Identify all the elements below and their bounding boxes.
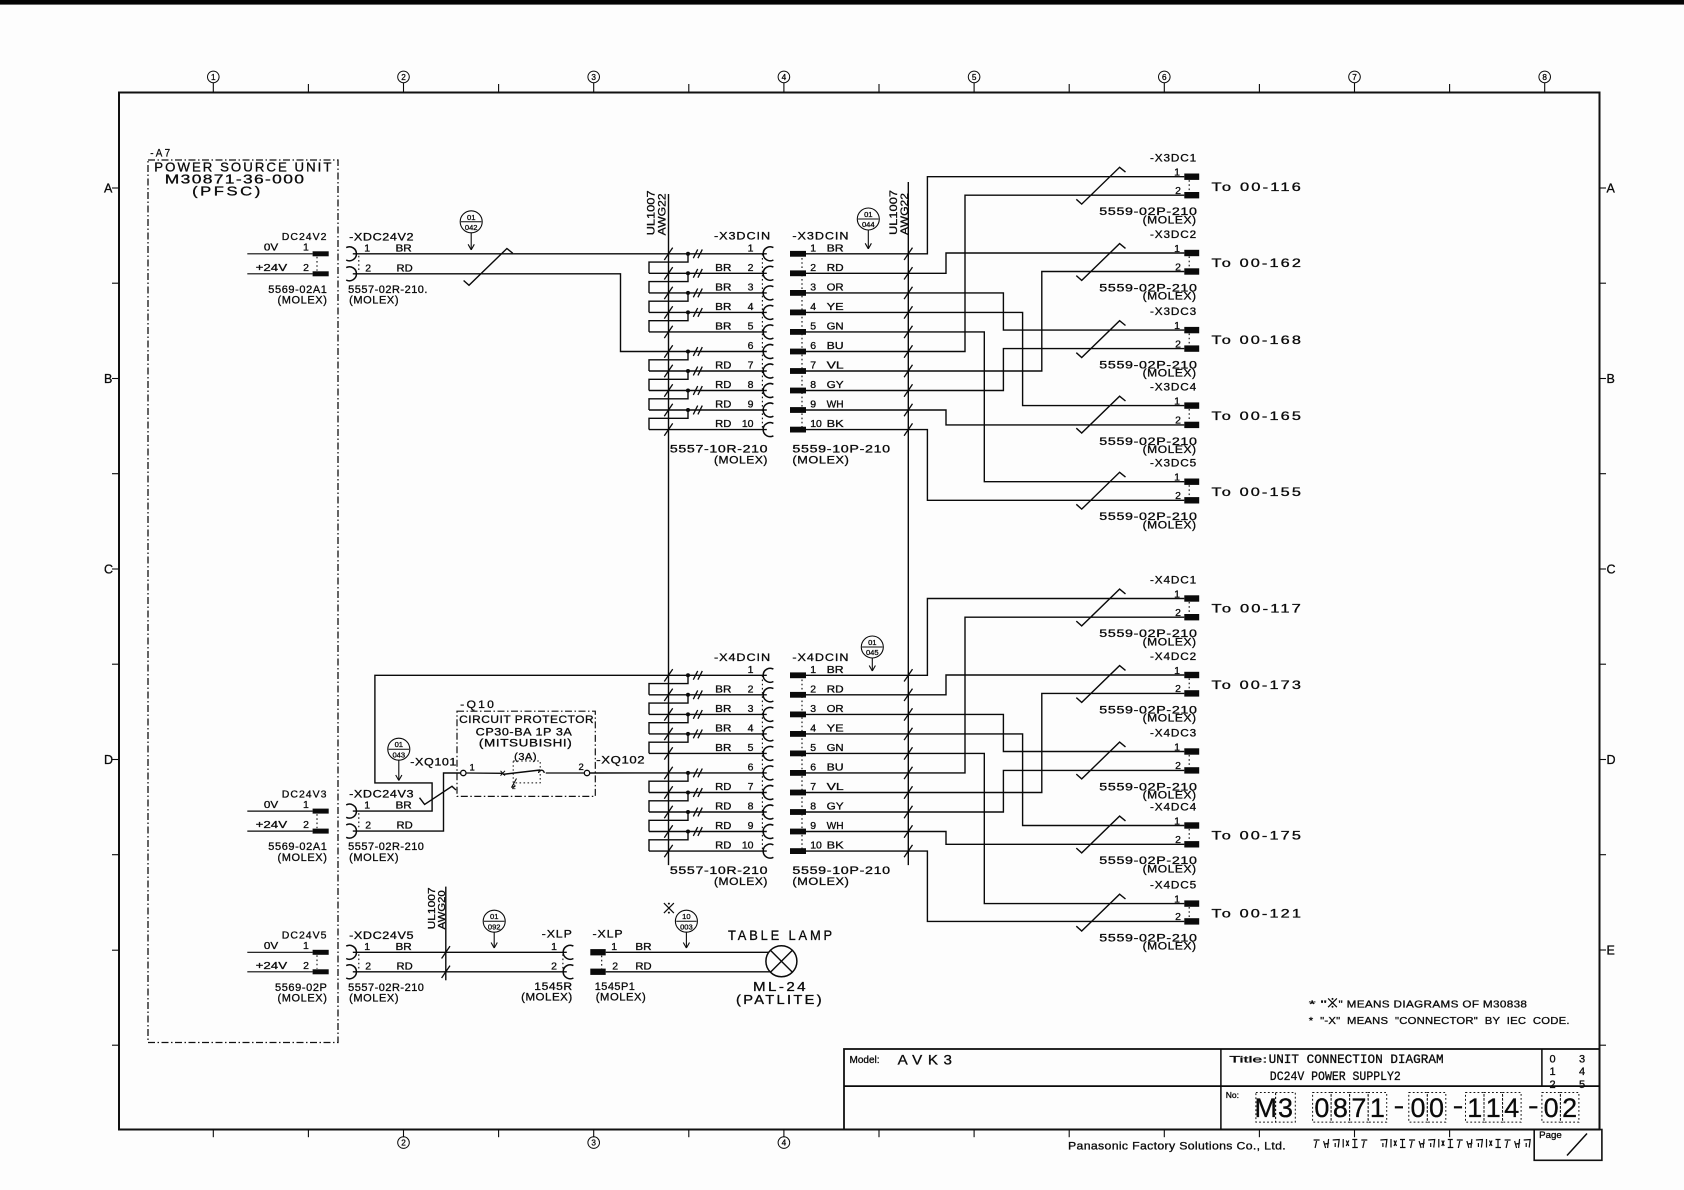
-X4DCIN plug pin 8 GY: [790, 801, 844, 815]
svg-text:0: 0: [1314, 1093, 1329, 1123]
svg-text:CIRCUIT PROTECTOR: CIRCUIT PROTECTOR: [459, 714, 594, 726]
svg-text:(MOLEX): (MOLEX): [1143, 368, 1197, 380]
svg-text:1: 1: [810, 664, 816, 676]
connector -XDC24V3 pin 2 hook: [346, 824, 356, 838]
connector -XDC24V3 pin link: [358, 813, 360, 829]
connector -X4DC3 5559-02P-210: [1099, 728, 1199, 802]
-X3DCIN plug pin 10 BK: [790, 418, 844, 432]
-X4DCIN plug wire 9 to bundle: [806, 825, 913, 837]
svg-text:2: 2: [1175, 338, 1181, 350]
svg-text:(MOLEX): (MOLEX): [277, 295, 327, 307]
svg-text:(PATLITE): (PATLITE): [736, 993, 824, 1007]
connector -X4DC5 5559-02P-210: [1099, 880, 1199, 953]
svg-text:4: 4: [748, 723, 754, 735]
-X4DCIN row 6 stub wire: [664, 767, 702, 779]
-X3DCIN receptacle pin 9: [715, 399, 773, 417]
revision number grid: [1549, 1054, 1585, 1091]
svg-text:2: 2: [365, 960, 371, 972]
svg-text:+24V: +24V: [256, 960, 288, 972]
svg-text:BR: BR: [396, 242, 413, 254]
svg-text:(MOLEX): (MOLEX): [349, 852, 399, 864]
svg-text:A: A: [1607, 182, 1616, 196]
svg-text:5: 5: [748, 742, 754, 754]
svg-text:OR: OR: [827, 282, 844, 294]
cable mark on -X4DC3 pair: [1076, 742, 1125, 779]
-X3DCIN receptacle pin 7: [715, 360, 773, 378]
svg-text:-X4DC2: -X4DC2: [1150, 651, 1197, 663]
svg-text:1: 1: [1549, 1066, 1555, 1078]
svg-text:GY: GY: [827, 379, 844, 391]
-X4DCIN receptacle pin 3: [715, 703, 773, 721]
svg-text:8: 8: [810, 801, 816, 813]
svg-text:+24V: +24V: [256, 819, 288, 831]
svg-text:2: 2: [1175, 185, 1181, 197]
-X4DCIN chain link 9-10: [649, 832, 688, 852]
svg-text:(PFSC): (PFSC): [192, 184, 263, 199]
wire X4DCIN row2 to X4DC2 pin1: [908, 675, 1184, 695]
wire XDC24V2-2 RD to X3DCIN row6: [353, 274, 767, 352]
title block frame: [844, 1049, 1600, 1130]
svg-text:M: M: [1255, 1093, 1278, 1123]
svg-text:003: 003: [680, 922, 693, 931]
wire X3DCIN row8 to X3DC3 pin2: [908, 349, 1184, 391]
net label To 00-155: [1212, 487, 1304, 499]
svg-text:3: 3: [1278, 1093, 1293, 1123]
-X3DCIN receptacle pin 6: [748, 340, 774, 358]
reference mark for lamp circuit: [664, 903, 674, 914]
svg-text:-X3DC1: -X3DC1: [1150, 153, 1197, 165]
svg-text:B: B: [104, 372, 112, 386]
-X3DCIN plug wire 10 to bundle: [806, 423, 913, 435]
-X4DCIN plug wire 7 to bundle: [806, 786, 913, 798]
svg-text:BR: BR: [715, 723, 732, 735]
company name: [1068, 1140, 1286, 1152]
-X4DCIN plug pin 9 WH: [790, 820, 844, 834]
svg-text:6: 6: [810, 340, 816, 352]
wire XDC24V5-2 RD to XLP 2: [353, 966, 567, 978]
svg-text:" MEANS DIAGRAMS OF M30838: " MEANS DIAGRAMS OF M30838: [1339, 998, 1528, 1010]
-X3DCIN receptacle pin 4: [715, 301, 773, 319]
wire X4DCIN row1 to X4DC1 pin1: [908, 599, 1184, 676]
svg-text:1: 1: [748, 242, 754, 254]
svg-text:1: 1: [1370, 1093, 1385, 1123]
-X4DCIN row 8 stub wire: [649, 806, 767, 818]
svg-text:1: 1: [364, 242, 370, 254]
svg-text:1: 1: [1174, 243, 1180, 255]
svg-text:6: 6: [748, 340, 754, 352]
wire X4DCIN row9 to X4DC4 pin2: [908, 832, 1184, 845]
-X3DCIN chain link 2-3: [649, 273, 688, 293]
svg-text:01: 01: [864, 210, 872, 219]
svg-text:2: 2: [810, 683, 816, 695]
connector -X3DCIN receptacle pin link: [761, 254, 763, 430]
cable line UL1007 AWG20: [426, 887, 448, 981]
svg-text:045: 045: [866, 648, 879, 657]
svg-text:-X3DC3: -X3DC3: [1150, 306, 1197, 318]
svg-text:BR: BR: [715, 282, 732, 294]
cable mark on -X3DC1 pair: [1076, 167, 1125, 204]
svg-text:7: 7: [1351, 1093, 1366, 1123]
-X3DCIN receptacle pin 1: [748, 242, 774, 260]
-X3DCIN chain link 6-7: [649, 352, 688, 372]
svg-text:(MOLEX): (MOLEX): [277, 852, 327, 864]
svg-text:2: 2: [1175, 607, 1181, 619]
svg-text:-X3DCIN: -X3DCIN: [714, 231, 771, 243]
svg-text:2: 2: [579, 762, 584, 773]
sheet reference 10/003: [675, 910, 697, 948]
svg-text:5: 5: [748, 321, 754, 333]
svg-text:To 00-173: To 00-173: [1212, 680, 1304, 692]
svg-text:1: 1: [1174, 741, 1180, 753]
svg-text:10: 10: [742, 418, 754, 430]
svg-text:(MOLEX): (MOLEX): [596, 992, 647, 1004]
svg-text:2: 2: [401, 1139, 406, 1148]
svg-text:01: 01: [467, 213, 475, 222]
-X4DCIN receptacle pin 8: [715, 801, 773, 819]
svg-text:10: 10: [682, 912, 690, 921]
connector XLP plug 1545P1: [590, 928, 652, 1003]
svg-text:2: 2: [1175, 490, 1181, 502]
svg-text:2: 2: [365, 262, 371, 274]
svg-text:To 00-175: To 00-175: [1212, 831, 1304, 843]
svg-text:5: 5: [1579, 1079, 1585, 1091]
svg-text:10: 10: [810, 840, 822, 852]
svg-text:8: 8: [748, 379, 754, 391]
svg-text:7: 7: [810, 781, 816, 793]
svg-text:2: 2: [551, 960, 557, 972]
svg-text:8: 8: [810, 379, 816, 391]
svg-text:VL: VL: [827, 360, 844, 372]
-X4DCIN row 5 stub wire: [649, 747, 767, 759]
svg-text:GY: GY: [827, 801, 844, 813]
svg-text:BR: BR: [715, 703, 732, 715]
connector -X4DCIN plug 5559-10P-210 labels: [792, 652, 890, 888]
power source unit A7 enclosure box: [148, 148, 338, 1043]
sheet reference 01/043: [388, 738, 410, 780]
svg-text:C: C: [104, 563, 113, 577]
-X3DCIN plug wire 7 to bundle: [806, 365, 913, 377]
svg-text:ML-24: ML-24: [753, 980, 808, 994]
svg-text:To 00-162: To 00-162: [1212, 258, 1304, 270]
-X4DCIN plug wire 2 to bundle: [806, 689, 913, 701]
connector -XDC24V2 labels: [348, 231, 428, 306]
svg-text:-X4DCIN: -X4DCIN: [714, 652, 771, 664]
connector DC24V2 pin 2 lead and crimp: [247, 271, 328, 276]
-X3DCIN plug pin 2 RD: [790, 262, 844, 276]
svg-text:3: 3: [591, 1139, 596, 1148]
svg-text:To 00-117: To 00-117: [1212, 604, 1304, 616]
wire XLP-1 BR to table lamp: [606, 951, 769, 953]
svg-text:BR: BR: [827, 664, 844, 676]
svg-text:2: 2: [1175, 261, 1181, 273]
svg-text:BR: BR: [715, 321, 732, 333]
-X4DCIN chain link 3-4: [649, 714, 688, 734]
connector -X4DCIN plug pin link: [801, 675, 803, 851]
cable mark on XDC24V3 RD wire: [420, 786, 457, 804]
wire XDC24V5-1 BR to XLP 1: [353, 946, 567, 958]
svg-text:2: 2: [303, 819, 309, 831]
connector -X3DCIN plug pin link: [801, 254, 803, 430]
-X3DCIN row 6 stub wire: [664, 345, 702, 357]
svg-text:(MOLEX): (MOLEX): [1143, 713, 1197, 725]
-X3DCIN plug wire 8 to bundle: [806, 384, 913, 396]
note reference marks meaning: [1309, 998, 1570, 1027]
-X4DCIN row 1 stub wire: [664, 669, 702, 681]
-X4DCIN plug pin 10 BK: [790, 840, 844, 854]
wire X3DCIN row7 to X3DC2 pin2: [908, 272, 1184, 372]
svg-text:043: 043: [392, 750, 405, 759]
svg-text:7: 7: [748, 360, 754, 372]
svg-text:2: 2: [612, 960, 618, 972]
svg-text:3: 3: [1579, 1054, 1585, 1066]
svg-text:2: 2: [748, 262, 754, 274]
wire X3DCIN row2 to X3DC2 pin1: [908, 253, 1184, 273]
svg-text:(MOLEX): (MOLEX): [277, 993, 327, 1005]
svg-text:No:: No:: [1226, 1090, 1239, 1100]
connector -XDC24V5 pin 2 hook: [346, 965, 356, 979]
svg-text:6: 6: [810, 762, 816, 774]
cable mark on -X4DC1 pair: [1076, 589, 1125, 626]
-X3DCIN row 3 stub wire: [649, 287, 767, 299]
wire X3DCIN row1 to X3DC1 pin1: [908, 177, 1184, 254]
-X3DCIN plug pin 7 VL: [790, 360, 844, 374]
svg-text:(MOLEX): (MOLEX): [1143, 790, 1197, 802]
-X4DCIN plug wire 4 to bundle: [806, 728, 913, 740]
svg-text:4: 4: [748, 301, 754, 313]
svg-text:-A7: -A7: [150, 148, 172, 160]
svg-text:VL: VL: [827, 781, 844, 793]
svg-text:Model:: Model:: [850, 1055, 880, 1066]
svg-text:3: 3: [748, 282, 754, 294]
svg-text:(MOLEX): (MOLEX): [521, 992, 573, 1004]
connector -X3DC3 5559-02P-210: [1099, 306, 1199, 380]
net label To 00-168: [1212, 335, 1304, 347]
svg-text:-X4DC3: -X4DC3: [1150, 728, 1197, 740]
cable mark on -X3DC5 pair: [1076, 472, 1125, 509]
drawing frame border: [119, 93, 1600, 1130]
-X3DCIN plug pin 3 OR: [790, 282, 844, 296]
-X4DCIN plug pin 3 OR: [790, 703, 844, 717]
-X3DCIN row 7 stub wire: [649, 365, 767, 377]
svg-text:3: 3: [748, 703, 754, 715]
-X3DCIN plug pin 1 BR: [790, 242, 844, 256]
svg-text:2: 2: [303, 960, 309, 972]
svg-text:2: 2: [748, 683, 754, 695]
svg-text:0V: 0V: [264, 940, 278, 952]
svg-text:BR: BR: [715, 262, 732, 274]
wire X3DCIN row10 to X3DC5 pin2: [908, 430, 1184, 501]
svg-text:RD: RD: [715, 840, 732, 852]
-X4DCIN chain link 2-3: [649, 695, 688, 715]
svg-text:1: 1: [364, 800, 370, 812]
svg-text:1: 1: [1486, 1093, 1501, 1123]
-X3DCIN chain link 3-4: [649, 293, 688, 313]
svg-text:BR: BR: [715, 742, 732, 754]
svg-text:BR: BR: [827, 242, 844, 254]
svg-text:9: 9: [810, 399, 816, 411]
-X3DCIN row 8 stub wire: [649, 384, 767, 396]
svg-text:1: 1: [810, 242, 816, 254]
svg-text:-XLP: -XLP: [593, 928, 624, 940]
wire XDC24V3-2 RD to circuit protector XQ101: [353, 773, 461, 831]
svg-text:0: 0: [1429, 1093, 1444, 1123]
svg-text:D: D: [1607, 753, 1616, 767]
svg-text:RD: RD: [715, 801, 732, 813]
wire X4DCIN row6 to X4DC1 pin2: [908, 617, 1184, 773]
-X4DCIN chain link 4-5: [649, 734, 688, 754]
connector -X4DCIN receptacle pin link: [761, 675, 763, 851]
svg-text:-XLP: -XLP: [542, 928, 573, 940]
svg-text:RD: RD: [715, 379, 732, 391]
-X3DCIN plug pin 4 YE: [790, 301, 844, 315]
svg-text:(MOLEX): (MOLEX): [1143, 291, 1197, 303]
-X4DCIN row 4 stub wire: [649, 728, 767, 740]
svg-text:RD: RD: [827, 262, 844, 274]
-X3DCIN plug pin 5 GN: [790, 321, 844, 335]
row reference letters right: [1600, 182, 1616, 1046]
svg-text:2: 2: [512, 784, 516, 791]
net label To 00-116: [1212, 182, 1304, 194]
svg-text:10: 10: [742, 840, 754, 852]
svg-text:7: 7: [810, 360, 816, 372]
svg-text:WH: WH: [827, 399, 844, 411]
-X3DCIN row 5 stub wire: [649, 326, 767, 338]
svg-text:To 00-168: To 00-168: [1212, 335, 1304, 347]
-X4DCIN chain link 6-7: [649, 773, 688, 793]
-X3DCIN plug pin 9 WH: [790, 399, 844, 413]
svg-text:BK: BK: [827, 840, 844, 852]
cable bundle line right UL1007 AWG22: [888, 182, 911, 865]
svg-text:1: 1: [748, 664, 754, 676]
svg-text:C: C: [1607, 563, 1616, 577]
-X3DCIN row 2 stub wire: [649, 267, 767, 279]
svg-text:B: B: [1607, 372, 1615, 386]
wire XLP-2 RD to table lamp: [606, 971, 770, 973]
svg-text:4: 4: [1504, 1093, 1519, 1123]
svg-text:AWG20: AWG20: [436, 890, 448, 929]
wire XDC24V3-1 BR to X4DCIN row1: [353, 675, 767, 811]
-X4DCIN chain link 7-8: [649, 793, 688, 813]
connector -XDC24V2 pin 2 hook: [346, 267, 356, 281]
connector -X3DCIN receptacle 5557-10R-210 labels: [670, 231, 771, 467]
-X3DCIN row 1 stub wire: [664, 248, 702, 260]
svg-text:(MOLEX): (MOLEX): [1143, 444, 1197, 456]
svg-text:BR: BR: [396, 941, 413, 953]
wire X3DCIN row9 to X3DC4 pin2: [908, 410, 1184, 425]
svg-text:-XQ101: -XQ101: [410, 756, 457, 768]
svg-text:01: 01: [395, 740, 403, 749]
connector DC24V3 pin link: [316, 814, 318, 828]
cable mark on -X4DC2 pair: [1076, 666, 1125, 703]
svg-text:(MOLEX): (MOLEX): [1143, 941, 1197, 953]
svg-text:1: 1: [1174, 320, 1180, 332]
connector DC24V2 pin labels: [256, 231, 328, 307]
svg-text:8: 8: [748, 801, 754, 813]
connector DC24V5 pin 2 lead and crimp: [247, 969, 328, 974]
-X4DCIN plug pin 6 BU: [790, 762, 844, 776]
svg-text:AWG22: AWG22: [657, 193, 669, 235]
svg-text:7: 7: [1352, 73, 1357, 82]
svg-text:TABLE LAMP: TABLE LAMP: [728, 928, 835, 943]
svg-text:DC24V POWER SUPPLY2: DC24V POWER SUPPLY2: [1270, 1069, 1401, 1084]
connector -X4DC2 5559-02P-210: [1099, 651, 1199, 725]
svg-text:(MOLEX): (MOLEX): [714, 876, 768, 888]
-X3DCIN plug wire 1 to bundle: [806, 248, 913, 260]
-X3DCIN plug wire 2 to bundle: [806, 267, 913, 279]
svg-text:Panasonic Factory Solutions Co: Panasonic Factory Solutions Co., Ltd.: [1068, 1140, 1286, 1152]
-X4DCIN row 7 stub wire: [649, 786, 767, 798]
net label To 00-162: [1212, 258, 1304, 270]
svg-text:(MOLEX): (MOLEX): [1143, 214, 1197, 226]
svg-text:(MOLEX): (MOLEX): [1143, 863, 1197, 875]
svg-text:To 00-165: To 00-165: [1212, 411, 1304, 423]
svg-text:GN: GN: [827, 742, 844, 754]
-X4DCIN chain link 8-9: [649, 812, 688, 832]
svg-text:E: E: [1607, 944, 1615, 958]
connector DC24V3 pin labels: [256, 788, 328, 864]
svg-text:YE: YE: [827, 723, 844, 735]
-X4DCIN plug pin 1 BR: [790, 664, 844, 678]
connector -XDC24V2 pin link: [358, 256, 360, 272]
-X3DCIN plug pin 8 GY: [790, 379, 844, 393]
svg-text:0: 0: [1410, 1093, 1425, 1123]
svg-text:1: 1: [1174, 395, 1180, 407]
svg-text:AWG22: AWG22: [899, 193, 911, 235]
svg-text:2: 2: [1549, 1079, 1555, 1091]
svg-text:3: 3: [810, 703, 816, 715]
svg-text:RD: RD: [635, 960, 652, 972]
svg-text:8: 8: [1542, 73, 1547, 82]
connector DC24V3 pin 2 lead and crimp: [247, 829, 328, 834]
-X3DCIN chain link 8-9: [649, 391, 688, 411]
net label To 00-175: [1212, 831, 1304, 843]
net label To 00-121: [1212, 908, 1304, 920]
svg-text:1: 1: [1174, 815, 1180, 827]
-X3DCIN plug wire 9 to bundle: [806, 404, 913, 416]
svg-text:(3A): (3A): [514, 752, 537, 763]
svg-text:(MITSUBISHI): (MITSUBISHI): [479, 738, 573, 750]
svg-text:1: 1: [1467, 1093, 1482, 1123]
svg-text:(MOLEX): (MOLEX): [1143, 519, 1197, 531]
svg-text:1: 1: [1174, 665, 1180, 677]
cable mark on XDC24V2 pair: [464, 249, 513, 286]
-X4DCIN receptacle pin 4: [715, 723, 773, 741]
svg-text:1: 1: [303, 940, 309, 952]
table lamp ML-24: [728, 928, 835, 1007]
cable mark on -X3DC4 pair: [1076, 396, 1125, 433]
svg-text:2: 2: [303, 262, 309, 274]
-X4DCIN plug pin 5 GN: [790, 742, 844, 756]
svg-text:1: 1: [1174, 472, 1180, 484]
-X3DCIN receptacle pin 3: [715, 282, 773, 300]
svg-text:RD: RD: [715, 820, 732, 832]
cable bundle line left UL1007 AWG22: [646, 190, 669, 865]
svg-text:+24V: +24V: [256, 262, 288, 274]
svg-text:044: 044: [862, 220, 875, 229]
sheet reference 01/045: [861, 636, 883, 671]
svg-text:1: 1: [303, 242, 309, 254]
svg-text:5: 5: [972, 73, 977, 82]
svg-text:6: 6: [1162, 73, 1167, 82]
connector XLP receptacle 1545R: [521, 928, 573, 1003]
wire X4DCIN row8 to X4DC3 pin2: [908, 770, 1184, 812]
net label To 00-165: [1212, 411, 1304, 423]
-X4DCIN plug wire 1 to bundle: [806, 669, 913, 681]
svg-text:2: 2: [401, 73, 406, 82]
svg-text:2: 2: [1562, 1093, 1577, 1123]
svg-text:RD: RD: [715, 360, 732, 372]
svg-text:4: 4: [810, 301, 816, 313]
